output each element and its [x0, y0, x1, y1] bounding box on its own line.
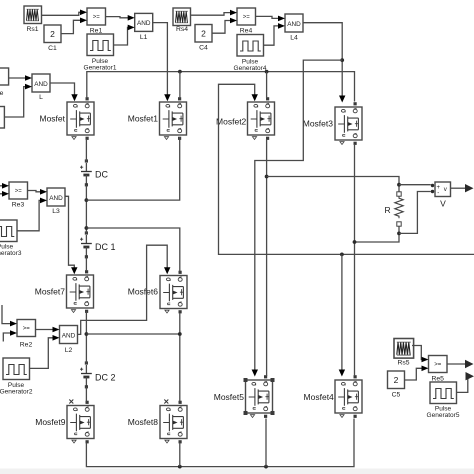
wire L1 to Mosfet1 gate: [153, 23, 171, 102]
mosfet Mosfet1: [128, 97, 187, 140]
logical operator L: [32, 74, 50, 101]
resistor R: [385, 192, 404, 226]
wire rail to Mosfet6 drain: [86, 228, 179, 272]
wire L3 to Mosfet7 gate: [65, 196, 78, 274]
wire PulseGenerator5 output arrow: [457, 372, 474, 392]
repeating sequence Rs5: [394, 339, 414, 367]
mosfet Mosfet: [39, 97, 94, 140]
wire Rs4 to Re4: [191, 10, 238, 16]
gate x marker Mosfet8: [164, 400, 168, 404]
wire PulseGenerator4 to L4: [264, 23, 286, 45]
junction bottom Mosfet8: [178, 465, 182, 469]
svg-text:Generator2: Generator2: [0, 389, 33, 396]
wire Mosfet7 source to DC2 to Mosfet9 drain: [85, 311, 87, 402]
junction L4 split: [340, 58, 344, 62]
svg-text:Generator5: Generator5: [427, 412, 460, 419]
mosfet Mosfet6: [128, 271, 187, 314]
svg-text:C4: C4: [199, 45, 208, 52]
wire Mosfet source to DC chain down to Mosfet7 drain: [85, 139, 87, 271]
svg-text:Mosfet: Mosfet: [39, 114, 65, 124]
pulse generator (cut at left edge): [0, 107, 4, 129]
wire Re2 input 1: [2, 305, 17, 326]
wire to V minus: [399, 192, 431, 234]
wire to R top: [267, 177, 399, 192]
svg-text:Mosfet4: Mosfet4: [304, 392, 335, 402]
svg-text:Rs1: Rs1: [26, 26, 38, 33]
voltage measurement V: [431, 182, 451, 209]
wire Mosfet3 source down to Mosfet4 drain: [354, 144, 356, 376]
mosfet Mosfet5 (selected, corner handles): [214, 375, 275, 418]
svg-text:Generator3: Generator3: [0, 250, 22, 257]
wire Mosfet2 source down to Mosfet5 drain: [266, 139, 268, 376]
mosfet Mosfet3: [303, 102, 362, 145]
wire Rs1 to Re1: [42, 10, 88, 16]
constant C1: [44, 25, 61, 52]
dc voltage source DC 1: [80, 231, 116, 258]
wire C1 to Re1: [61, 18, 87, 34]
svg-text:Re: Re: [0, 90, 4, 97]
wire C4 to Re4: [212, 18, 237, 34]
wire Re4 to L4: [256, 16, 286, 22]
constant C5: [388, 371, 405, 399]
wire Re5 output arrow: [447, 360, 474, 368]
relational operator Re2: [17, 320, 36, 349]
logical operator L2: [60, 326, 78, 355]
wire PulseGenerator1 to L1: [114, 25, 135, 45]
svg-text:DC 2: DC 2: [95, 373, 116, 383]
wire L4 output to Mosfet3 gate: [303, 23, 345, 103]
mosfet Mosfet7: [35, 270, 94, 313]
mosfet Mosfet4: [304, 375, 362, 418]
wire to V plus: [399, 184, 431, 186]
wire pulse to L: [4, 84, 32, 117]
mosfet Mosfet8: [128, 401, 187, 444]
svg-text:Mosfet3: Mosfet3: [303, 119, 334, 129]
junction R bottom branch: [353, 240, 357, 244]
mosfet Mosfet2: [216, 97, 274, 140]
svg-text:L: L: [39, 94, 43, 101]
repeating sequence Rs4: [173, 8, 191, 33]
wire L4 split to Mosfet5 gate: [252, 60, 343, 376]
junction bus-Mosfet2: [265, 70, 269, 74]
wire R bottom down: [355, 226, 400, 242]
svg-text:Mosfet7: Mosfet7: [35, 287, 66, 297]
pulse generator Pulse Generator5: [427, 382, 460, 419]
svg-text:-: -: [437, 191, 439, 197]
bottom gray strip: [0, 469, 474, 474]
svg-text:L2: L2: [65, 347, 73, 354]
pulse generator Pulse Generator1: [84, 34, 117, 72]
junction source tie: [85, 332, 89, 336]
wire V output arrow: [451, 184, 474, 192]
wire C5 to Re5: [405, 366, 429, 381]
repeating sequence Rs1: [24, 6, 42, 33]
relational operator Re4: [237, 8, 256, 35]
junction bottom Mosfet5: [264, 465, 268, 469]
logical operator L1: [135, 13, 153, 41]
svg-text:DC: DC: [95, 170, 108, 180]
wire Rs5 to Re5: [412, 346, 429, 363]
svg-text:C1: C1: [48, 45, 57, 52]
svg-text:Rs4: Rs4: [176, 26, 188, 33]
wire Re2 to L2: [36, 327, 60, 333]
logical operator L3: [47, 188, 65, 215]
wire PulseGenerator3 to L3: [17, 198, 47, 231]
svg-text:C5: C5: [392, 392, 401, 399]
wire Re1 to L1: [106, 15, 135, 21]
wire Re2 input 2: [3, 330, 17, 341]
wire top drain bus: [87, 72, 355, 102]
svg-text:V: V: [440, 199, 446, 209]
svg-text:Re4: Re4: [240, 28, 253, 35]
svg-text:Mosfet8: Mosfet8: [128, 417, 159, 427]
svg-text:Rs5: Rs5: [397, 360, 409, 367]
dc voltage source DC 2: [80, 361, 116, 388]
svg-text:Re2: Re2: [20, 342, 33, 349]
svg-text:L1: L1: [140, 34, 148, 41]
wire PulseGenerator2 to L2: [30, 335, 60, 368]
svg-text:L4: L4: [290, 35, 298, 42]
svg-text:L3: L3: [52, 208, 60, 215]
dc voltage source DC: [80, 159, 108, 186]
junction V plus: [397, 183, 401, 187]
junction tie column: [178, 332, 182, 336]
junction V minus: [397, 232, 401, 236]
svg-text:Mosfet5: Mosfet5: [214, 392, 245, 402]
relational operator Re3: [9, 182, 28, 209]
mosfet Mosfet9: [35, 401, 94, 444]
svg-text:Mosfet1: Mosfet1: [128, 114, 159, 124]
wire Mosfet9 source to bottom rail: [86, 419, 354, 467]
wire bus to Mosfet2 drain: [266, 72, 268, 98]
constant C4: [195, 25, 212, 52]
wire Re3 input 2: [0, 191, 9, 197]
gate x marker Mosfet9: [69, 400, 73, 404]
pulse generator Pulse Generator4: [234, 35, 267, 73]
svg-text:Re3: Re3: [12, 202, 25, 209]
junction gate bus Mosfet4: [340, 253, 344, 257]
junction rail Mosfet6 drain: [85, 226, 89, 230]
wire Re3 to L3: [28, 189, 48, 195]
wire tie rail to Mosfet6/Mosfet8 column: [86, 313, 179, 402]
wire bus to Mosfet1 drain: [179, 72, 181, 98]
wire mid rail to Mosfet1 source: [86, 137, 179, 200]
wire Re3 input 1: [0, 183, 9, 189]
wire Mosfet8 source down: [179, 443, 181, 467]
wire Re to L: [9, 75, 32, 81]
relational operator Re5: [429, 356, 448, 383]
svg-text:Mosfet9: Mosfet9: [35, 417, 66, 427]
svg-text:Mosfet6: Mosfet6: [128, 287, 159, 297]
relational operator Re (cut at left edge): [0, 68, 9, 97]
wire Mosfet5 source down: [265, 419, 267, 467]
relational operator Re1: [87, 8, 106, 35]
wire L to Mosfet gate: [50, 83, 78, 101]
pulse generator Pulse Generator3 (cut at left edge): [0, 220, 22, 257]
wire gate bus to Mosfet2 and Mosfet4: [219, 84, 474, 254]
wire L2 to Mosfet6 gate: [78, 245, 171, 334]
svg-text:Generator1: Generator1: [84, 65, 117, 72]
pulse generator Pulse Generator2: [0, 358, 33, 396]
svg-text:Mosfet2: Mosfet2: [216, 117, 247, 127]
svg-text:DC 1: DC 1: [95, 242, 116, 252]
wire gate bus down to Mosfet4 gate: [339, 254, 345, 376]
svg-text:R: R: [385, 205, 391, 215]
junction bus-Mosfet1: [178, 70, 182, 74]
junction R top branch: [265, 175, 269, 179]
junction DC-Mosfet1 return: [85, 198, 89, 202]
logical operator L4: [285, 14, 303, 42]
